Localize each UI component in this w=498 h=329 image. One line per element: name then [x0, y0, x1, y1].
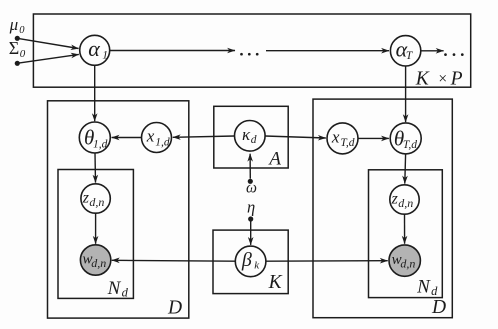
svg-text:K: K	[415, 69, 430, 90]
param dot eta	[248, 216, 253, 221]
svg-text:d: d	[431, 284, 438, 298]
svg-text:0: 0	[20, 48, 26, 60]
node w_dn (left, observed)	[80, 245, 110, 275]
svg-text:d,n: d,n	[91, 256, 106, 270]
svg-text:d: d	[122, 285, 129, 299]
plate label N_d (right)	[416, 276, 438, 298]
svg-text:K: K	[268, 272, 283, 293]
svg-text:1: 1	[102, 50, 108, 62]
svg-text:β: β	[241, 249, 252, 271]
node alpha_T	[390, 36, 420, 66]
plate label K x P	[415, 69, 463, 90]
wire xTd to thetaTd	[358, 137, 389, 139]
node z_dn (left)	[81, 184, 110, 213]
node alpha_1	[80, 35, 110, 65]
wire thetaTd to zdn right	[404, 154, 407, 184]
svg-text:T,d: T,d	[340, 137, 354, 149]
svg-text:d,n: d,n	[89, 195, 104, 209]
wire alphaT to right dots	[421, 50, 444, 52]
plate D (left)	[48, 101, 189, 318]
node beta_k	[235, 246, 266, 277]
svg-text:N: N	[107, 278, 122, 299]
label mu_0	[9, 15, 26, 36]
ellipsis dots after alphaT	[444, 53, 464, 56]
wire omega to kappa	[249, 154, 251, 179]
svg-text:P: P	[450, 69, 463, 90]
node theta_Td	[390, 123, 421, 154]
plate N_d (right inner)	[369, 170, 443, 298]
svg-text:κ: κ	[242, 125, 251, 144]
svg-text:α: α	[88, 36, 100, 61]
wire zdn to wdn right	[404, 214, 406, 243]
svg-text:N: N	[416, 276, 431, 297]
wire alphaT to thetaTd	[405, 66, 407, 122]
wire alpha1 to middle dots	[110, 50, 235, 52]
node z_dn (right)	[390, 185, 419, 214]
svg-text:Σ: Σ	[9, 38, 19, 58]
wire x1d to theta1d	[112, 137, 142, 139]
svg-text:1,d: 1,d	[93, 138, 108, 150]
svg-text:x: x	[331, 127, 340, 146]
wire zdn to wdn left	[95, 213, 97, 244]
wire Sigma0 to alpha1	[20, 54, 79, 63]
plate K x P (top)	[33, 14, 470, 87]
svg-text:D: D	[431, 297, 446, 318]
svg-text:A: A	[267, 149, 281, 170]
wire alpha1 to theta1d	[94, 65, 96, 121]
plate A (center upper)	[214, 106, 288, 168]
plate K (center lower)	[213, 230, 288, 294]
wire kappa to xTd	[265, 136, 326, 138]
param dot omega	[248, 179, 253, 184]
svg-text:d,n: d,n	[398, 196, 413, 210]
svg-text:d,n: d,n	[400, 257, 415, 271]
svg-text:x: x	[146, 127, 155, 146]
svg-text:0: 0	[19, 25, 25, 36]
node w_dn (right, observed)	[389, 245, 420, 276]
ellipsis dots between alpha1 and alphaT	[240, 53, 258, 56]
node kappa_d	[235, 121, 266, 152]
svg-text:T,d: T,d	[403, 139, 417, 151]
svg-text:d: d	[251, 134, 257, 146]
svg-text:μ: μ	[9, 15, 19, 34]
label Sigma_0	[9, 38, 26, 60]
node x_Td	[327, 123, 358, 154]
wire betak to wdn right	[266, 260, 388, 263]
plate label N_d (left)	[107, 278, 129, 300]
wire kappa to x1d	[173, 136, 235, 137]
node x_1d	[142, 123, 172, 153]
svg-text:×: ×	[438, 70, 447, 87]
plate D (right)	[313, 99, 452, 318]
param dot mu_0	[15, 36, 20, 41]
plate N_d (left inner)	[58, 170, 133, 299]
param dot Sigma_0	[15, 61, 20, 66]
svg-text:η: η	[247, 198, 255, 217]
svg-text:D: D	[167, 298, 182, 319]
node theta_1d	[79, 122, 110, 153]
svg-text:1,d: 1,d	[155, 136, 170, 148]
wire theta1d to zdn left	[94, 153, 97, 183]
wire betak to wdn left	[112, 259, 236, 262]
wire mu0 to alpha1	[20, 39, 79, 49]
wire eta to betak	[250, 222, 252, 245]
svg-text:ω: ω	[246, 179, 257, 196]
wire middle dots to alphaT	[266, 50, 389, 52]
